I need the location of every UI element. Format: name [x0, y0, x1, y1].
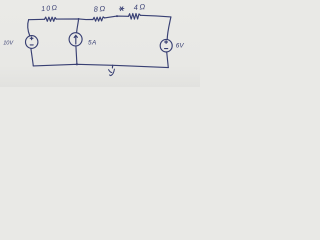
- wire below current source: [76, 46, 77, 64]
- V1 plus sign: [30, 37, 33, 40]
- current source I1 circle: [69, 33, 82, 46]
- junction dot node: [116, 15, 118, 17]
- node y tick: [111, 65, 113, 68]
- I1 arrow up: [74, 35, 77, 44]
- wire top-right segment: [140, 15, 171, 17]
- wire right vertical upper: [167, 17, 171, 39]
- resistor R2 8ohm zigzag: [93, 17, 105, 21]
- wire from top rail to current source: [77, 19, 79, 33]
- wire below V1: [31, 48, 33, 66]
- voltage source V2 circle: [160, 39, 172, 52]
- wire bottom rail: [33, 64, 168, 67]
- resistor R1 10ohm zigzag: [45, 17, 57, 21]
- junction at top of current source: [78, 18, 80, 20]
- V2 plus sign: [165, 41, 168, 44]
- wire below V2: [167, 52, 169, 68]
- svg-text:10Ω: 10Ω: [41, 5, 59, 13]
- svg-text:10V: 10V: [3, 40, 14, 46]
- voltage source V1 circle: [26, 36, 38, 49]
- wire top middle segment: [56, 18, 93, 21]
- svg-text:5A: 5A: [88, 40, 97, 47]
- svg-text:8Ω: 8Ω: [93, 4, 107, 14]
- asterisk star mark: [119, 7, 124, 11]
- paper background: [0, 0, 200, 87]
- junction at bottom of current source: [76, 63, 78, 65]
- V1 minus sign: [30, 44, 33, 46]
- resistor R3 4ohm zigzag: [129, 14, 141, 20]
- svg-text:4Ω: 4Ω: [133, 2, 147, 12]
- V2 minus sign: [165, 48, 168, 50]
- wire left vertical: [28, 20, 30, 36]
- label node y (handwritten): [109, 69, 115, 76]
- svg-text:6V: 6V: [176, 42, 185, 49]
- wire top-left segment: [29, 18, 45, 20]
- wire segment between R2 and R3: [105, 16, 129, 18]
